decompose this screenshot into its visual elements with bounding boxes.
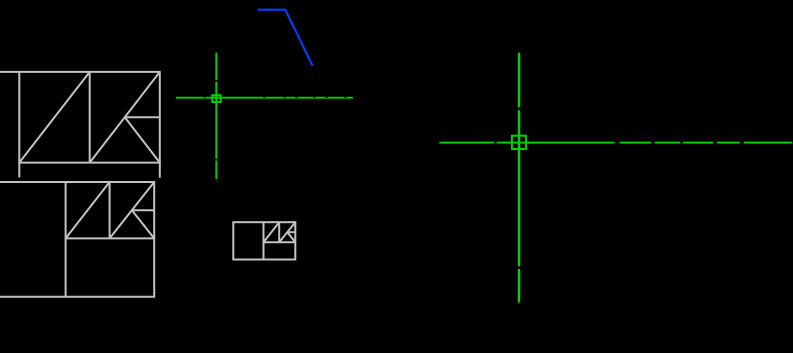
mini truss M1 left-panel diagonal (66, 182, 110, 238)
truss T1 right-panel mid horizontal strut (125, 116, 160, 118)
small panel P2 horizontal divider (264, 241, 296, 243)
truss T1 bottom chord (18, 162, 160, 164)
truss T1 right vertical post (159, 72, 161, 178)
mini truss M1 middle vertical (109, 182, 111, 238)
micro truss M2 mid horizontal strut (287, 231, 295, 233)
small panel P2 vertical divider (263, 222, 265, 259)
panel P1 inner vertical divider (65, 182, 67, 297)
panel P1 bottom edge (0, 296, 155, 298)
crosshair C2 vertical arm middle segment (518, 110, 520, 266)
truss T1 middle vertical post (89, 72, 91, 163)
crosshair C1 vertical arm middle segment (215, 82, 217, 159)
crosshair C1 horizontal arm dash notches (203, 96, 347, 99)
crosshair C1 vertical arm lower segment (215, 161, 217, 179)
panel P1 top edge (0, 181, 155, 183)
truss T1 top chord (0, 71, 161, 73)
truss T1 left vertical post (18, 71, 20, 177)
crosshair C2 horizontal tracking segment b (497, 142, 615, 144)
crosshair C2 horizontal tracking dash g (744, 142, 793, 144)
mini truss M1 mid horizontal strut (132, 209, 154, 211)
crosshair C2 horizontal tracking segment a (439, 142, 494, 144)
micro truss M2 left-panel diagonal (264, 222, 280, 242)
crosshair C1 pickbox (212, 95, 220, 102)
crosshair C1 vertical arm upper segment (215, 53, 217, 80)
crosshair C2 vertical arm lower segment (518, 269, 520, 303)
micro truss M2 middle vertical (278, 222, 280, 242)
truss T1 right-panel lower diagonal (125, 117, 160, 162)
crosshair C2 horizontal tracking dash c (620, 142, 652, 144)
small panel P2 outer rectangle (233, 222, 295, 259)
crosshair C2 horizontal tracking dash d (655, 142, 681, 144)
mini truss M1 lower diagonal (132, 210, 154, 238)
blue polyline PL1 (258, 10, 313, 66)
crosshair C2 horizontal tracking dash e (683, 142, 713, 144)
truss T1 left-panel diagonal (19, 72, 89, 163)
crosshair C1 horizontal arm (176, 97, 353, 99)
crosshair C2 horizontal tracking dash f (717, 142, 740, 144)
truss T1 right-panel main diagonal (90, 72, 160, 163)
mini truss M1 right-panel main diagonal (110, 182, 155, 238)
micro truss M2 lower diagonal (287, 232, 295, 242)
panel P1 inner horizontal divider (66, 237, 155, 239)
crosshair C2 vertical arm upper segment (518, 53, 520, 107)
panel P1 right vertical edge (153, 182, 155, 297)
crosshair C2 pickbox (512, 136, 526, 149)
micro truss M2 right-panel main diagonal (279, 222, 295, 242)
